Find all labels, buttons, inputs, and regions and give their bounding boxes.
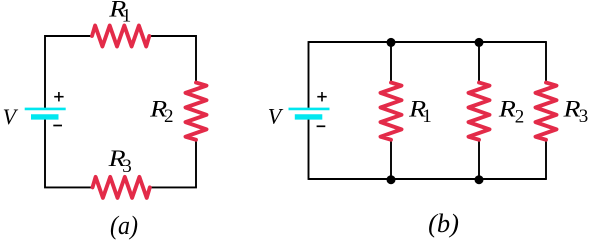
svg-text:R: R bbox=[498, 97, 516, 122]
resistor R2 (a) zigzag bbox=[186, 83, 207, 140]
node dot top R2 (b) bbox=[475, 38, 484, 47]
wire branch R2 upper (b) bbox=[478, 42, 480, 83]
circuit (b) outer loop wires bbox=[309, 41, 547, 180]
svg-text:V: V bbox=[268, 104, 284, 129]
resistor R1 (b) zigzag bbox=[381, 83, 402, 140]
wire top-left segment (a) bbox=[45, 36, 92, 109]
svg-text:3: 3 bbox=[579, 106, 589, 127]
node dot top R1 (b) bbox=[387, 38, 396, 47]
node dot bottom R1 (b) bbox=[387, 175, 396, 184]
label R1 (b) bbox=[408, 97, 432, 127]
wire branch R1 upper (b) bbox=[390, 42, 392, 83]
wire branch R2 lower (b) bbox=[478, 140, 480, 179]
wire top-right segment (a) bbox=[149, 36, 196, 83]
wire right branch upper (b) bbox=[545, 41, 547, 82]
wire left branch lower (b) bbox=[308, 117, 310, 180]
battery (b) plus sign bbox=[317, 92, 326, 101]
label R2 (a) bbox=[149, 97, 174, 127]
resistor R3 (b) zigzag bbox=[536, 83, 557, 140]
circuit (a) loop wires bbox=[45, 36, 196, 187]
wire bottom-left segment (a) bbox=[45, 117, 93, 187]
svg-text:3: 3 bbox=[122, 156, 132, 177]
battery V (b) bottom plate bbox=[295, 114, 323, 119]
battery V (a) top plate bbox=[25, 108, 66, 111]
svg-text:2: 2 bbox=[515, 106, 525, 127]
label R3 (b) bbox=[562, 97, 588, 128]
svg-text:2: 2 bbox=[164, 106, 174, 127]
resistor R3 (a) zigzag bbox=[93, 177, 150, 198]
label R2 (b) bbox=[498, 97, 525, 128]
label R1 (a) bbox=[108, 0, 131, 26]
node dot bottom R2 (b) bbox=[475, 175, 484, 184]
battery (a) plus sign bbox=[54, 92, 63, 101]
wire branch R1 lower (b) bbox=[390, 140, 392, 179]
battery V (a) bottom plate bbox=[31, 114, 59, 119]
wire bottom-right segment (a) bbox=[150, 140, 196, 188]
resistor R1 (a) zigzag bbox=[92, 26, 149, 47]
resistor R2 (b) zigzag bbox=[469, 83, 490, 140]
battery (b) minus sign bbox=[317, 125, 326, 127]
svg-text:(a): (a) bbox=[110, 210, 138, 240]
svg-text:1: 1 bbox=[122, 5, 132, 26]
battery (a) minus sign bbox=[53, 125, 62, 127]
wire left branch upper (b) bbox=[308, 41, 310, 109]
wire top rail (b) bbox=[309, 41, 547, 43]
label R3 (a) bbox=[107, 146, 131, 177]
svg-text:1: 1 bbox=[422, 106, 432, 127]
battery V (b) top plate bbox=[289, 108, 330, 111]
wire bottom rail (b) bbox=[309, 178, 547, 180]
svg-text:(b): (b) bbox=[428, 208, 459, 238]
svg-text:V: V bbox=[3, 104, 19, 129]
wire right branch lower (b) bbox=[545, 140, 547, 180]
